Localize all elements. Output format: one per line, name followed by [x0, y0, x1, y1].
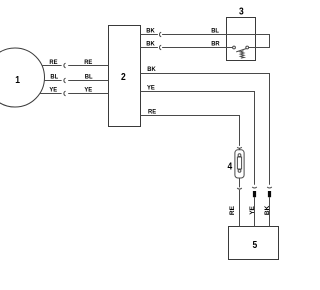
svg-text:BR: BR — [211, 40, 220, 47]
svg-text:BK: BK — [147, 66, 156, 73]
svg-text:YE: YE — [249, 205, 256, 214]
connector fork BK/BL row — [159, 32, 161, 37]
svg-text:1: 1 — [15, 74, 20, 85]
svg-text:RE: RE — [148, 108, 156, 115]
svg-text:BL: BL — [85, 73, 93, 80]
connector cup BK vertical — [267, 187, 272, 188]
wire BK lower vertical — [269, 197, 271, 226]
terminal block BK — [268, 191, 271, 197]
connector fork YE left — [64, 91, 66, 96]
wire BK/BL top row segment A — [141, 34, 158, 36]
connector cup below fuse — [237, 188, 242, 189]
wire BK/BL loop around box 3 — [162, 35, 269, 48]
connector fork RE left — [64, 63, 66, 68]
wire BK/BR row segment A — [141, 47, 158, 49]
svg-text:BK: BK — [146, 40, 155, 47]
svg-text:RE: RE — [49, 59, 57, 66]
wire YE left segment B — [68, 93, 108, 95]
switch box 3 — [227, 18, 256, 61]
connector cup YE vertical — [252, 187, 257, 188]
svg-text:RE: RE — [229, 205, 236, 215]
wire RE left segment A — [42, 65, 62, 67]
switch left contact — [233, 46, 236, 49]
svg-text:4: 4 — [227, 161, 232, 172]
svg-text:BK: BK — [146, 27, 155, 34]
wire YE lower vertical — [254, 197, 256, 226]
fuse 4 body — [235, 150, 244, 178]
load box 5 — [229, 227, 279, 260]
connector cup above fuse — [237, 147, 242, 148]
wire below fuse — [239, 178, 241, 187]
svg-text:RE: RE — [84, 59, 92, 66]
wire RE horizontal then down — [141, 116, 240, 146]
wire YE left segment A — [40, 93, 62, 95]
motor/generator circle 1 — [0, 48, 45, 107]
svg-text:YE: YE — [49, 86, 57, 93]
wire BL left segment B — [68, 80, 108, 82]
fuse 4 top cap — [238, 154, 241, 157]
svg-text:BL: BL — [50, 73, 58, 80]
wire BK horizontal then down — [141, 74, 270, 185]
control unit box 2 — [109, 26, 141, 127]
fuse 4 bottom cap — [238, 170, 241, 173]
fuse 4 element — [237, 157, 241, 169]
svg-text:YE: YE — [147, 84, 155, 91]
wire BK/BR segment B to switch — [162, 47, 233, 49]
terminal block YE — [253, 191, 256, 197]
svg-text:5: 5 — [253, 239, 258, 250]
switch right contact — [246, 46, 249, 49]
connector fork BL left — [64, 78, 66, 83]
svg-text:2: 2 — [121, 71, 126, 82]
svg-text:YE: YE — [84, 86, 92, 93]
switch blade — [236, 49, 246, 52]
connector fork BK/BR row — [159, 45, 161, 50]
switch spring coil — [240, 51, 244, 58]
wire RE lower vertical — [239, 190, 241, 227]
svg-text:BK: BK — [264, 205, 271, 215]
fuse 4 top stub — [239, 149, 241, 150]
wire RE left segment B — [68, 65, 108, 67]
wire YE horizontal then down — [141, 92, 255, 185]
wire BL left segment A — [44, 80, 61, 82]
svg-text:BL: BL — [211, 27, 219, 34]
svg-text:3: 3 — [239, 6, 244, 17]
